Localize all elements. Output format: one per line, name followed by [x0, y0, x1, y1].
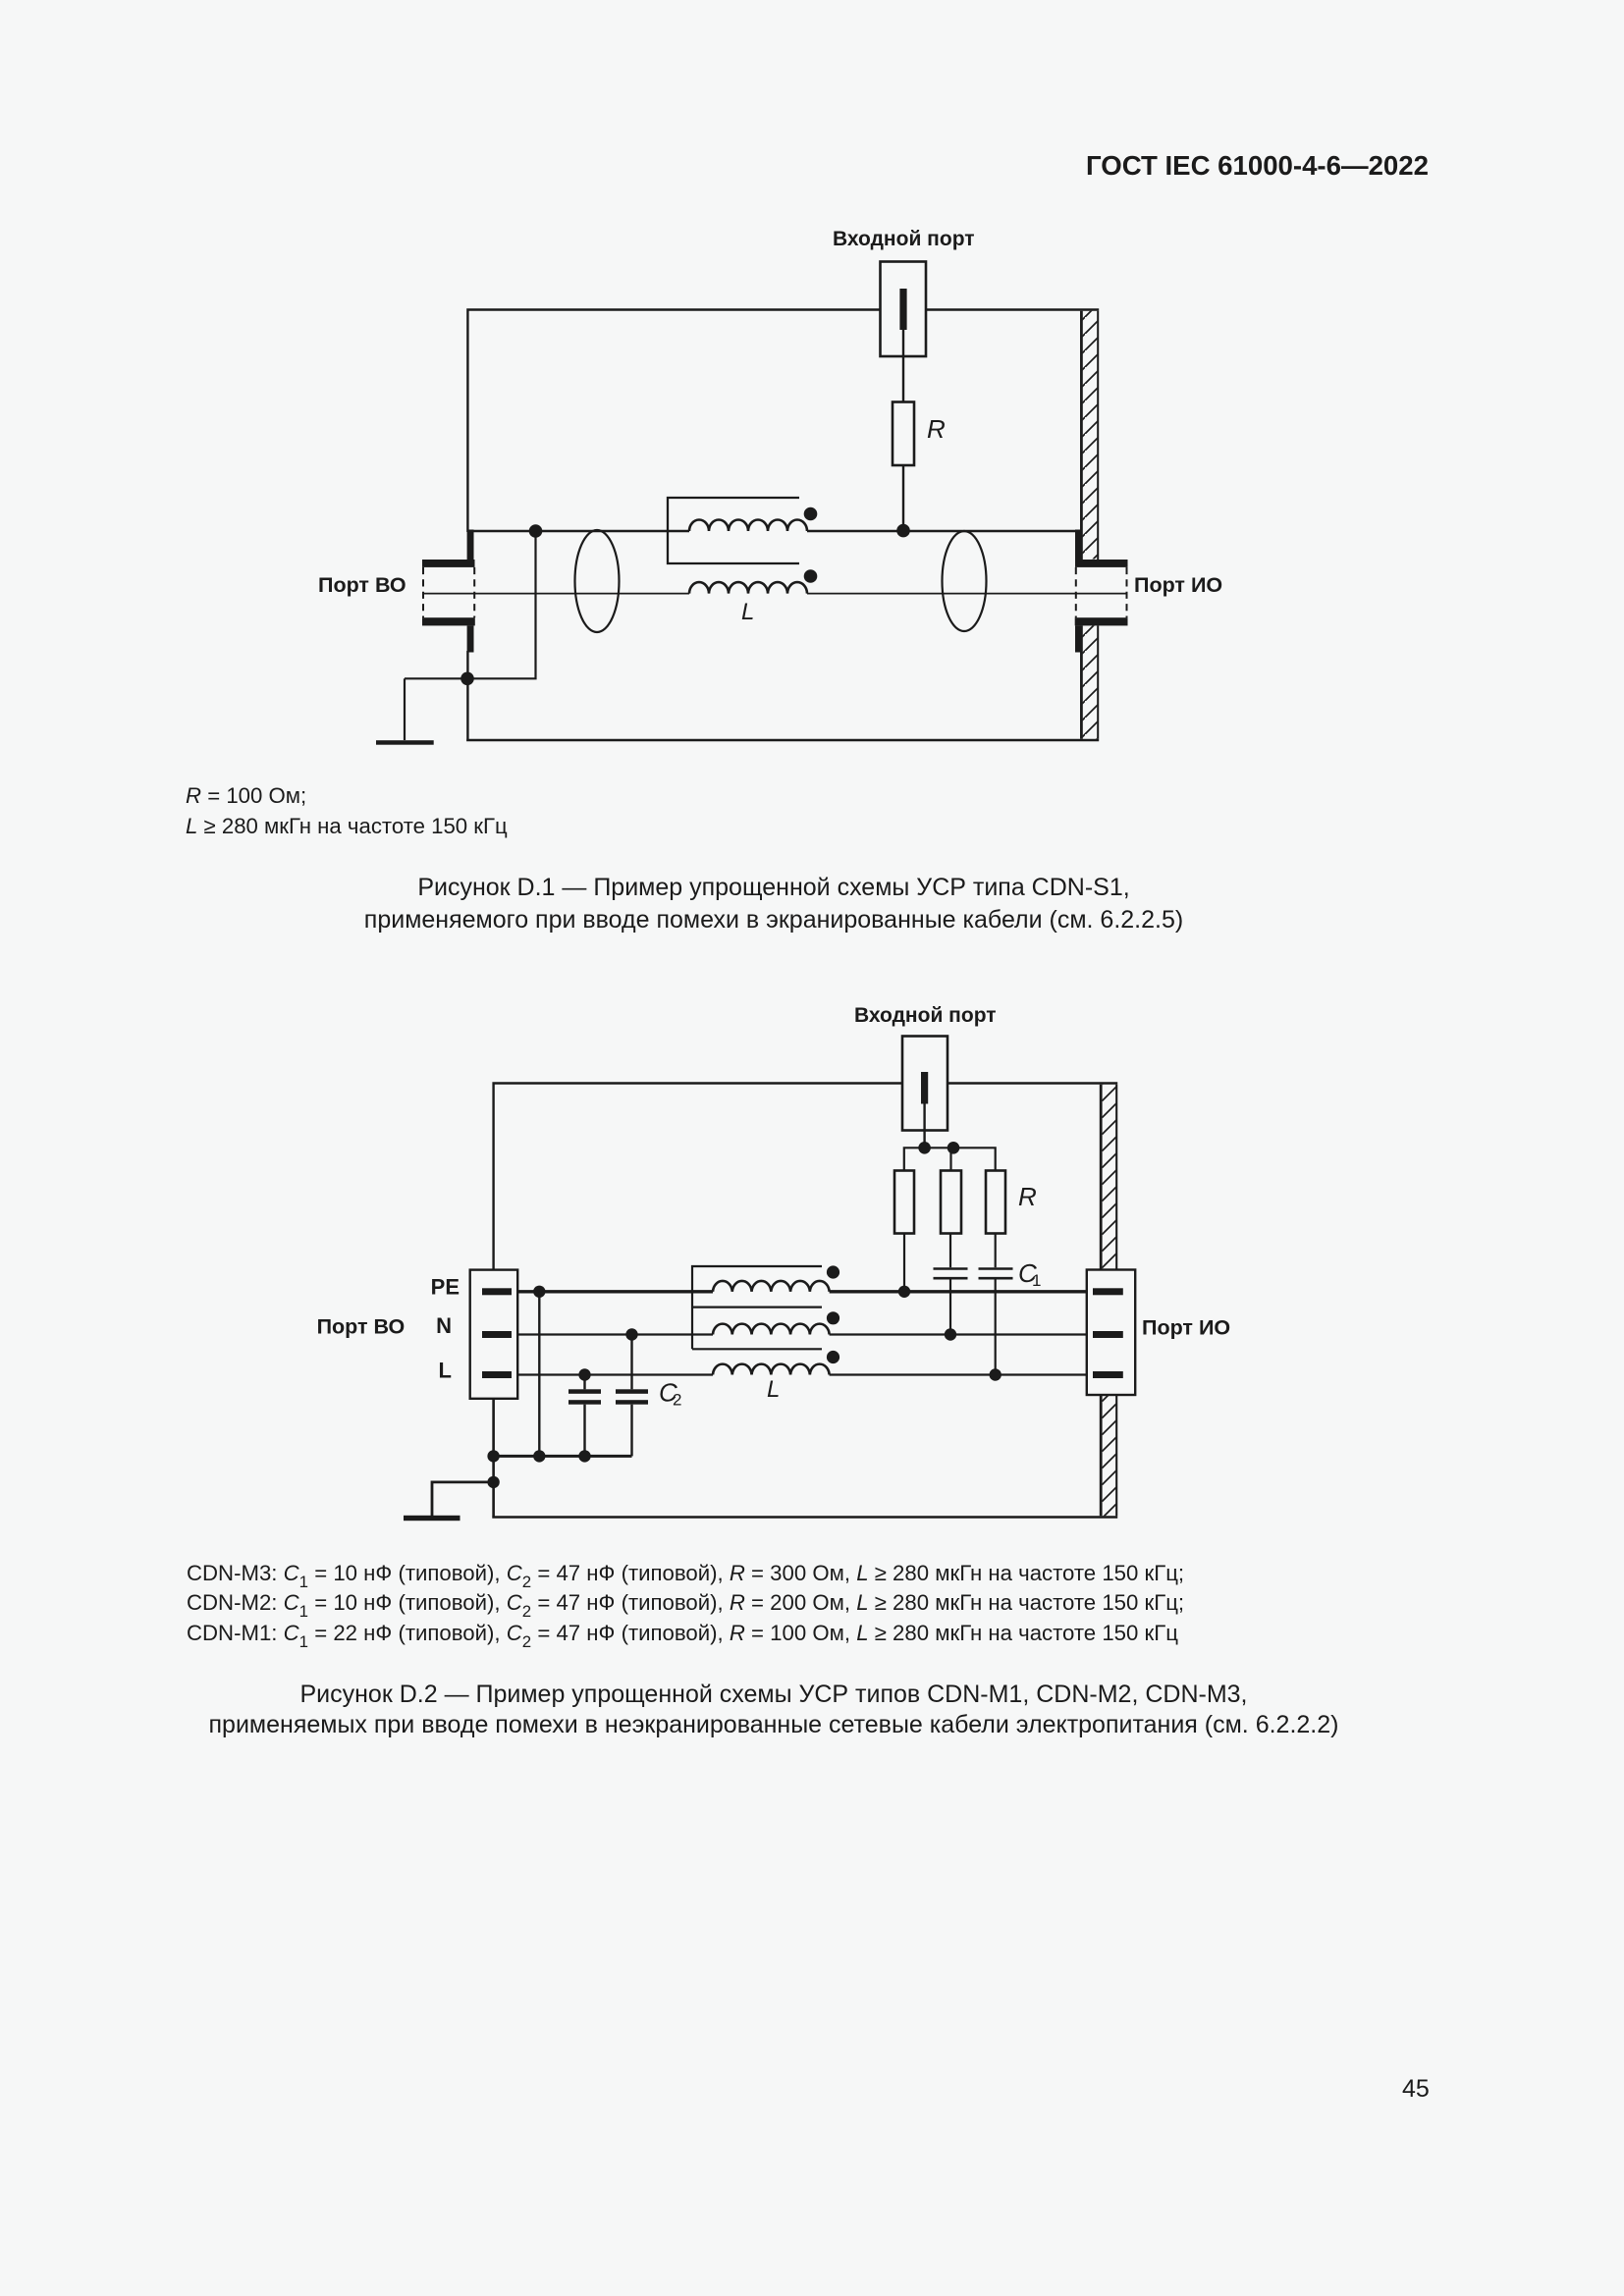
label: C2 value designator (figure D.2)	[659, 1378, 681, 1410]
wire: N line (figure D.2)	[512, 1333, 1094, 1335]
label: Порт ВО (figure D.2)	[317, 1315, 406, 1339]
capacitor C1, right unit (figure D.2)	[979, 1269, 1013, 1375]
svg-text:Входной порт: Входной порт	[854, 1004, 997, 1027]
winding interconnect bracket (figure D.2)	[692, 1266, 822, 1349]
junction: input wire to rail (figure D.2)	[918, 1142, 931, 1154]
capacitor C1, left unit (figure D.2)	[934, 1269, 968, 1335]
junction: bus at C2 left (figure D.2)	[578, 1450, 590, 1462]
junction: L line to C2 drop (figure D.2)	[578, 1368, 590, 1380]
svg-text:Порт ВО: Порт ВО	[318, 573, 406, 597]
svg-text:PE: PE	[431, 1275, 460, 1300]
svg-text:L: L	[439, 1359, 452, 1383]
inductor L winding 1, top (figure D.1)	[689, 520, 807, 532]
label: L terminal (figure D.2)	[439, 1359, 452, 1383]
label: PE terminal (figure D.2)	[431, 1275, 460, 1300]
capacitor C2, right unit (figure D.2)	[616, 1337, 648, 1456]
junction: bus at PE drop (figure D.2)	[533, 1450, 545, 1462]
svg-text:L: L	[741, 599, 754, 625]
resistor R (figure D.1)	[893, 402, 914, 532]
polarity dot, winding PE (figure D.2)	[827, 1265, 839, 1278]
label: Входной порт (figure D.1)	[833, 228, 975, 250]
capacitor C2, left unit (figure D.2)	[568, 1378, 601, 1456]
enclosure box outline (figure D.1)	[466, 308, 1099, 741]
resistor R, right unit (figure D.2)	[986, 1171, 1005, 1268]
figure D.1 value notes	[186, 783, 306, 809]
inductor L winding N (figure D.2)	[713, 1324, 830, 1335]
wire: top conductor from input-port node to enclosure walls (figure D.1)	[468, 530, 1076, 532]
wire: shield drop to enclosure wall (figure D.1)	[405, 531, 536, 678]
resistor R, left unit (figure D.2)	[894, 1171, 914, 1292]
port ВО connector, left (figure D.2)	[470, 1270, 518, 1399]
polarity dot, winding L (figure D.2)	[827, 1351, 839, 1363]
port ИО connector, right (figure D.2)	[1087, 1270, 1135, 1396]
wire: resistor feed rail (figure D.2)	[904, 1147, 996, 1170]
wire: earth bus (figure D.2)	[494, 1455, 632, 1458]
junction: C1 left to N (figure D.2)	[945, 1328, 956, 1340]
junction: C1 right to L (figure D.2)	[990, 1368, 1001, 1380]
label: L value designator (figure D.2)	[767, 1376, 780, 1403]
svg-text:R: R	[1018, 1182, 1037, 1211]
label: N terminal (figure D.2)	[436, 1313, 452, 1338]
page number	[1402, 2075, 1430, 2104]
label: R value designator (figure D.1)	[927, 414, 946, 444]
junction: PE line to drop wire (figure D.2)	[533, 1286, 545, 1298]
hatched shielded wall, right side (figure D.2)	[1101, 1085, 1116, 1517]
polarity dot, winding N (figure D.2)	[827, 1311, 839, 1324]
junction: left resistor to PE (figure D.2)	[898, 1286, 910, 1298]
junction: N line to C2 drop (figure D.2)	[625, 1328, 637, 1340]
inductor L winding PE (figure D.2)	[713, 1281, 830, 1292]
figure D.1 caption	[0, 874, 1547, 902]
polarity dot, winding 2 (figure D.1)	[804, 569, 818, 583]
polarity dot, winding 1 (figure D.1)	[804, 507, 818, 521]
running head	[1086, 150, 1429, 182]
svg-text:L: L	[767, 1376, 780, 1403]
svg-text:Порт ИО: Порт ИО	[1142, 1316, 1230, 1340]
label: Порт ИО (figure D.1)	[1134, 573, 1222, 597]
inductor L winding 2, bottom (figure D.1)	[689, 582, 807, 594]
inductor L winding L (figure D.2)	[713, 1364, 830, 1375]
svg-text:Порт ВО: Порт ВО	[317, 1315, 406, 1339]
resistor R, middle unit (figure D.2)	[941, 1171, 961, 1268]
port ВО connector, left (figure D.1)	[422, 530, 475, 653]
cable oval, left (figure D.1)	[575, 530, 620, 632]
svg-text:2: 2	[673, 1391, 681, 1410]
svg-text:Входной порт: Входной порт	[833, 228, 975, 250]
junction: middle stub on rail (figure D.2)	[947, 1142, 960, 1154]
svg-text:R: R	[927, 414, 946, 444]
svg-text:N: N	[436, 1313, 452, 1338]
wire: port ВО shell to earth bus (figure D.2)	[492, 1399, 494, 1518]
label: Порт ВО (figure D.1)	[318, 573, 406, 597]
label: Порт ИО (figure D.2)	[1142, 1316, 1230, 1340]
junction: top conductor to shield drop (figure D.1)	[529, 524, 543, 538]
svg-text:Порт ИО: Порт ИО	[1134, 573, 1222, 597]
junction: ground tap on wall (figure D.2)	[487, 1476, 499, 1488]
hatched shielded wall, right side (figure D.1)	[1081, 311, 1098, 739]
wire: centre conductor between ports (figure D.1)	[424, 593, 1127, 595]
junction: bus at wall (figure D.2)	[487, 1450, 499, 1462]
winding interconnect bracket (figure D.1)	[668, 498, 799, 563]
junction: R to top conductor (figure D.1)	[896, 524, 910, 538]
label: L value designator (figure D.1)	[741, 599, 754, 625]
ground symbol (figure D.2)	[404, 1482, 494, 1521]
input port connector (figure D.1)	[881, 262, 927, 402]
wire: PE drop to earth bus (figure D.2)	[538, 1292, 540, 1457]
figure D.2 caption	[0, 1681, 1547, 1709]
junction: shield drop at wall (figure D.1)	[460, 672, 474, 686]
label: C1 value designator (figure D.2)	[1018, 1258, 1041, 1290]
svg-text:1: 1	[1032, 1271, 1041, 1290]
figure D.2 value notes	[187, 1561, 1184, 1586]
enclosure box outline (figure D.2)	[492, 1082, 1117, 1517]
wire: L line (figure D.2)	[512, 1373, 1094, 1375]
input port connector (figure D.2)	[902, 1037, 947, 1148]
label: R value designator (figure D.2)	[1018, 1182, 1037, 1211]
ground symbol (figure D.1)	[376, 678, 434, 744]
cable oval, right (figure D.1)	[943, 531, 987, 631]
port ИО connector, right (figure D.1)	[1075, 530, 1128, 653]
label: Входной порт (figure D.2)	[854, 1004, 997, 1027]
wire: PE line (figure D.2)	[512, 1290, 1094, 1293]
